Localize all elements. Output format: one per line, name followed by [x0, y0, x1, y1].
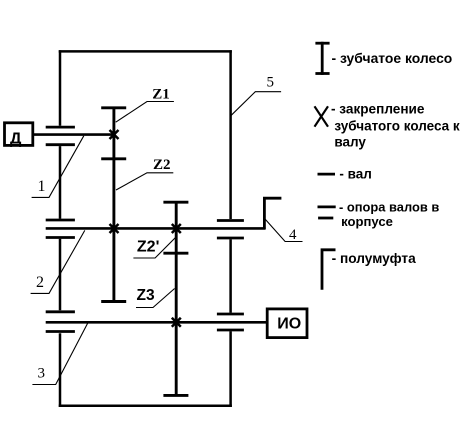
shaft 3: [46, 321, 267, 324]
shaft 2: [46, 227, 266, 230]
svg-text:- опора валов в: - опора валов в: [339, 200, 439, 215]
shaft 1: [33, 133, 115, 136]
legend fastening X symbol: [315, 102, 460, 150]
output box ИО: [267, 309, 307, 338]
label 4 leader: [265, 219, 303, 243]
svg-text:валу: валу: [334, 134, 366, 149]
svg-text:1: 1: [38, 178, 46, 195]
label Z2': [133, 238, 175, 259]
bearing shaft3 right wall: [217, 314, 244, 330]
housing bottom wall: [59, 405, 232, 408]
legend gear symbol: [315, 42, 452, 75]
fastening X gear Z2' to shaft 2: [172, 224, 181, 233]
fastening X gear Z1 to shaft 1: [110, 130, 119, 139]
legend shaft support symbol: [318, 200, 440, 229]
svg-text:2: 2: [36, 274, 44, 291]
label 5 leader: [231, 75, 281, 116]
svg-text:Z2': Z2': [137, 239, 159, 256]
gear Z1: [101, 108, 126, 159]
half-coupling 4 on shaft 2: [264, 198, 281, 229]
housing right wall segments: [229, 50, 232, 407]
label Z2: [116, 157, 173, 190]
svg-text:ИО: ИО: [277, 316, 301, 333]
svg-text:Д: Д: [10, 131, 22, 148]
svg-text:- вал: - вал: [339, 167, 371, 182]
svg-text:- полумуфта: - полумуфта: [332, 251, 416, 266]
bearing shaft1 left wall: [46, 127, 75, 145]
svg-text:Z1: Z1: [152, 87, 170, 103]
bearing shaft2 right wall: [217, 221, 244, 239]
svg-text:- закрепление: - закрепление: [331, 102, 425, 117]
label Z1: [116, 87, 174, 123]
svg-text:зубчатого колеса к: зубчатого колеса к: [334, 118, 460, 133]
svg-text:Z3: Z3: [137, 287, 155, 304]
svg-text:Z2: Z2: [153, 157, 171, 173]
svg-text:4: 4: [289, 227, 297, 243]
legend shaft symbol: [318, 167, 372, 182]
label Z3: [136, 287, 175, 307]
fastening X gear Z3 to shaft 3: [172, 318, 181, 327]
svg-text:корпусе: корпусе: [341, 214, 393, 229]
gear Z3: [163, 253, 188, 395]
gear Z2': [163, 202, 188, 253]
gear Z2: [101, 159, 126, 302]
legend half-coupling symbol: [322, 250, 416, 290]
housing top wall 5: [59, 50, 232, 53]
housing left wall segments: [59, 50, 62, 407]
bearing shaft3 left wall: [46, 312, 75, 332]
svg-text:3: 3: [38, 366, 46, 382]
svg-text:5: 5: [267, 75, 275, 91]
motor box Д: [5, 123, 33, 148]
bearing shaft2 left wall: [46, 220, 75, 238]
label 3 leader: [32, 323, 87, 384]
label 2 leader: [31, 230, 85, 293]
svg-text:- зубчатое колесо: - зубчатое колесо: [332, 50, 453, 66]
fastening X gear Z2 to shaft 2: [110, 224, 119, 233]
label 1 leader: [32, 136, 84, 198]
